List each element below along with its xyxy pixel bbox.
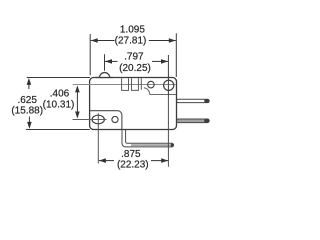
terminal prong B [177,119,210,123]
dim .625 bottom leader line [26,129,90,131]
svg-text:(20.25): (20.25) [119,63,151,74]
dim .625 top leader line [27,77,90,79]
dim .797 left arrowhead [105,59,112,64]
left mounting hole centerline horizontal [73,119,107,121]
dim .797 line right segment [152,60,168,62]
dim .797 line left segment [105,60,118,62]
small top circle [148,81,155,88]
svg-text:(15.88): (15.88) [11,105,43,116]
dim .797 left extension line [104,54,106,70]
dim .875 right arrowhead [161,158,168,163]
body top edge under plunger [96,77,113,79]
bent terminal gray plating [131,144,171,146]
bent terminal dark tip [171,143,174,147]
svg-text:(22.23): (22.23) [117,159,149,170]
svg-text:1.095: 1.095 [120,25,145,36]
dim 1.095 right extension line [175,33,177,77]
terminal prong B dark tip [204,119,209,123]
cover seam line [73,84,176,86]
left mounting hole centerline vertical / extension to .875 [97,113,99,163]
terminal base step line [90,111,122,130]
terminal prong A dark tip [204,99,209,102]
dim .406 up arrowhead [75,85,80,92]
dim .625 down arrow [28,117,30,127]
extension line at bent terminal end / hole centerline [167,96,169,167]
dim 1.095 line right segment [149,40,176,42]
dim .875 line left segment [99,160,114,162]
dim 1.095 right arrowhead [169,38,176,43]
bent common terminal [122,130,174,147]
top-right mounting hole [164,80,174,90]
svg-text:.406: .406 [50,88,70,99]
small flange circle [112,116,118,122]
ear bottom line [144,88,176,95]
dim .875 line right segment [151,160,168,162]
dim 1.095 left arrowhead [91,38,98,43]
dim .797 right arrowhead [161,59,168,64]
dim 1.095 left extension line [89,34,91,75]
switch body outline [90,78,177,130]
vent slot 1 [122,78,129,90]
dim .625 up arrow [28,80,30,89]
dim .797 right extension line [167,55,169,97]
dim 1.095 line left segment [91,40,115,42]
svg-text:.625: .625 [17,95,37,106]
dim .406 arrow line [76,87,78,117]
vent slot 2 [132,78,139,90]
svg-text:.797: .797 [124,52,144,63]
svg-text:(27.81): (27.81) [115,36,147,47]
vent slot line 3 [140,78,142,90]
left mounting hole oval [92,115,104,124]
terminal prong A [177,99,210,102]
dim .406 down arrowhead [75,112,80,119]
plunger button [100,73,110,78]
svg-text:(10.31): (10.31) [43,100,75,111]
dim .875 left arrowhead [99,158,106,163]
